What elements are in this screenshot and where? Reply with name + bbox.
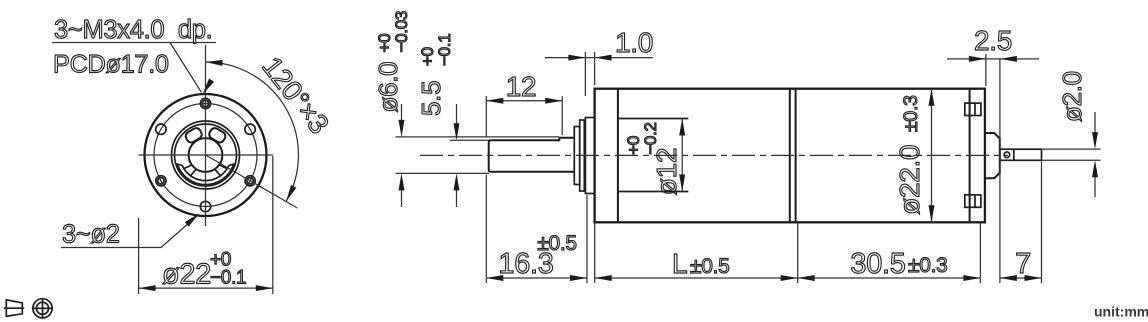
rear bearing boss <box>985 133 1000 178</box>
svg-text:1.0: 1.0 <box>615 27 653 58</box>
pilot boss &#216;12x1.0 <box>585 118 594 194</box>
svg-text:L: L <box>672 248 687 279</box>
label 5.5 +0/-0.1 <box>416 34 454 116</box>
note 3~M3x4.0 dp. <box>54 16 212 44</box>
svg-text:120°×3: 120°×3 <box>256 51 335 139</box>
2.5 dimension line <box>947 56 1039 62</box>
svg-text:ø22: ø22 <box>162 259 211 291</box>
svg-text:−0.03: −0.03 <box>392 11 411 53</box>
&#216;2 hole bottom <box>200 201 210 211</box>
label unit:mm <box>1094 304 1148 320</box>
12 extension line right <box>561 96 563 135</box>
&#216;2 extension line top <box>1042 148 1101 150</box>
svg-text:ø22.0: ø22.0 <box>894 145 925 215</box>
front boss outer circle <box>172 121 240 189</box>
rear shaft hole <box>1004 152 1010 158</box>
output shaft outline <box>489 138 575 172</box>
svg-text:ø2.0: ø2.0 <box>1057 71 1087 122</box>
12 dimension line <box>486 98 562 104</box>
note 3~&#216;2 <box>62 221 120 249</box>
side view centre line <box>420 154 1008 156</box>
&#216;22 dimension line <box>139 285 273 291</box>
5.5 dimension arrows <box>454 104 460 207</box>
bolt circle PCD&#216;17 <box>154 104 257 207</box>
L extension line left <box>594 224 596 284</box>
collar disc <box>580 120 585 191</box>
&#216;12 bore line top <box>618 118 688 120</box>
label 1.0 <box>615 27 653 58</box>
svg-text:±0.5: ±0.5 <box>690 255 730 278</box>
16.3 extension line left <box>485 175 487 284</box>
1.0 dimension line <box>545 55 653 61</box>
carrier ear left <box>184 126 203 144</box>
gearbox front plate line <box>617 89 619 223</box>
output shaft circle &#216;6 <box>189 138 223 172</box>
carrier fin left <box>184 165 197 176</box>
front view outer flange circle &#216;22 <box>145 94 267 216</box>
16.3 dimension line <box>486 275 587 281</box>
label L&#177;0.5 <box>672 248 730 279</box>
svg-text:±0.3: ±0.3 <box>908 254 948 277</box>
120&#176; radial line <box>206 155 298 208</box>
L/30.5 extension line <box>797 224 799 284</box>
svg-text:2.5: 2.5 <box>974 25 1012 56</box>
leader line M3 <box>52 43 216 95</box>
front boss inner circle <box>175 124 237 186</box>
label +0/-0.1 <box>210 250 246 289</box>
carrier ear right <box>208 126 227 144</box>
label &#177;0.3 after 30.5 <box>908 254 948 277</box>
carrier fin right <box>215 165 228 176</box>
label &#216;6.0 +0/-0.03 <box>373 11 411 113</box>
label 7 <box>1015 248 1031 280</box>
svg-text:−0.2: −0.2 <box>641 122 660 154</box>
projection symbol cone <box>4 300 25 317</box>
L dimension line <box>595 275 798 281</box>
M3 tapped hole lower-left <box>156 176 166 186</box>
svg-text:30.5: 30.5 <box>850 248 905 280</box>
svg-text:PCDø17.0: PCDø17.0 <box>53 51 169 79</box>
&#216;2 hole upper-right <box>245 124 255 134</box>
label &#216;22.0 &#177;0.3 <box>894 95 925 214</box>
label 16.3 <box>498 248 553 280</box>
carrier bottom band <box>177 164 233 185</box>
gearbox/motor joint line 2 <box>795 89 797 223</box>
1.0 extension line left <box>584 52 586 96</box>
&#216;6 dimension arrows <box>399 104 405 207</box>
&#216;22 extension line left <box>138 218 140 294</box>
&#216;2 extension line bottom <box>1042 159 1101 161</box>
label 30.5 <box>850 248 905 280</box>
leader line &#216;2 <box>61 213 200 247</box>
note PCD&#216;17.0 <box>53 51 169 79</box>
collar washer <box>574 127 579 185</box>
30.5 extension line right <box>979 224 981 284</box>
&#216;6 extension line bottom <box>396 172 490 174</box>
label 12 <box>506 71 537 102</box>
motor can crimp line <box>969 89 971 223</box>
svg-text:−0.1: −0.1 <box>210 268 246 289</box>
svg-text:7: 7 <box>1015 248 1031 280</box>
16.3 extension line right <box>586 195 588 283</box>
5.5 extension line (flat) <box>450 139 489 141</box>
svg-text:3~M3x4.0 dp.: 3~M3x4.0 dp. <box>54 16 212 44</box>
projection symbol circles <box>32 299 53 318</box>
120&#176; dimension arc <box>206 60 299 202</box>
label 120&#176;x3 <box>256 51 335 139</box>
label &#216;12 +0/-0.2 <box>624 122 682 195</box>
svg-text:−0.1: −0.1 <box>435 34 454 66</box>
M3 tapped hole top <box>200 98 210 108</box>
&#216;6 extension line top <box>396 136 560 138</box>
&#216;12 dimension arrows <box>679 119 685 192</box>
30.5 dimension line <box>798 275 981 281</box>
svg-text:ø6.0: ø6.0 <box>373 62 403 113</box>
7 extension line left <box>999 59 1001 283</box>
M3 tapped hole lower-right <box>245 176 255 186</box>
2.5 extension line left <box>985 54 987 86</box>
&#216;2 hole upper-left <box>156 124 166 134</box>
7 extension line right <box>1041 162 1043 284</box>
&#216;12 bore line bottom <box>618 191 688 193</box>
label &#216;22 <box>162 259 211 291</box>
svg-text:±0.5: ±0.5 <box>537 232 577 255</box>
body outline <box>595 89 985 223</box>
1.0 extension line right <box>594 52 596 85</box>
front view horizontal centre line <box>139 154 273 156</box>
label 2.5 <box>974 25 1012 56</box>
rear shaft &#216;2 <box>1000 149 1042 160</box>
end cap tab bottom <box>965 195 981 207</box>
end cap tab top <box>965 103 981 115</box>
svg-text:3~ø2: 3~ø2 <box>62 221 120 249</box>
&#216;2 dimension arrows <box>1092 112 1098 197</box>
gearbox/motor joint line 1 <box>789 89 791 223</box>
12 extension line left <box>485 96 487 138</box>
&#216;22 extension line right <box>272 156 274 294</box>
svg-text:5.5: 5.5 <box>416 81 446 116</box>
svg-text:unit:mm: unit:mm <box>1094 304 1148 320</box>
svg-text:12: 12 <box>506 71 537 102</box>
7 dimension line <box>1000 275 1042 281</box>
front view vertical centre line <box>205 45 207 226</box>
label &#216;2.0 <box>1057 71 1087 122</box>
svg-text:±0.3: ±0.3 <box>900 95 922 132</box>
&#216;22 dimension arrows <box>929 89 935 223</box>
label &#177;0.5 over 16.3 <box>537 232 577 255</box>
